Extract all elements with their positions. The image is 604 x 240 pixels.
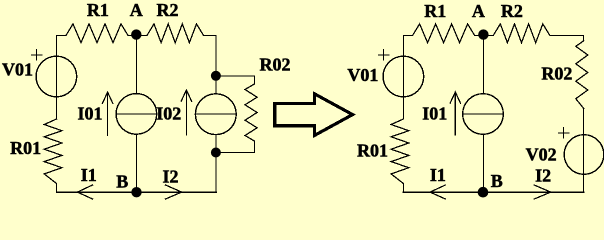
svg-text:I1: I1: [81, 165, 97, 185]
svg-text:R02: R02: [541, 64, 572, 84]
svg-text:V01: V01: [2, 60, 33, 80]
svg-text:I2: I2: [535, 166, 551, 186]
svg-text:A: A: [472, 1, 485, 21]
svg-text:B: B: [491, 171, 503, 191]
svg-text:R01: R01: [357, 141, 388, 161]
svg-text:I02: I02: [156, 104, 181, 124]
svg-text:R2: R2: [157, 0, 179, 20]
svg-text:B: B: [116, 172, 128, 192]
svg-text:A: A: [130, 0, 143, 20]
svg-text:V01: V01: [347, 65, 378, 85]
svg-text:I1: I1: [430, 165, 446, 185]
svg-text:R2: R2: [501, 1, 523, 21]
svg-text:R02: R02: [260, 55, 291, 75]
svg-text:R1: R1: [424, 1, 446, 21]
svg-text:R01: R01: [10, 138, 41, 158]
svg-text:I2: I2: [163, 167, 179, 187]
svg-text:R1: R1: [87, 0, 109, 20]
svg-text:V02: V02: [526, 145, 557, 165]
svg-text:I01: I01: [422, 104, 447, 124]
svg-text:I01: I01: [78, 104, 103, 124]
